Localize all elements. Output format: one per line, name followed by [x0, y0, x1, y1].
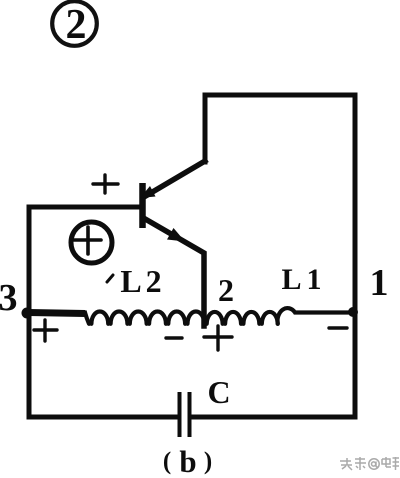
- svg-text:L1: L1: [281, 263, 326, 296]
- svg-text:2: 2: [218, 272, 234, 308]
- svg-text:2: 2: [66, 2, 87, 48]
- svg-text:3: 3: [0, 277, 18, 319]
- svg-text:): ): [204, 448, 212, 475]
- svg-text:b: b: [179, 444, 196, 478]
- svg-text:1: 1: [370, 262, 389, 304]
- svg-text:L2: L2: [120, 263, 165, 299]
- svg-text:(: (: [163, 448, 171, 475]
- svg-text:C: C: [207, 374, 230, 410]
